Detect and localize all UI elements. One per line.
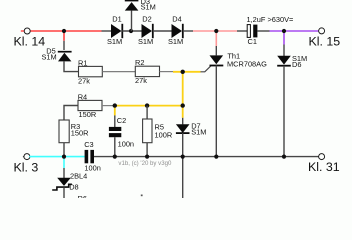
resistor R4 150R [78,92,102,119]
node E gate junction [181,70,185,74]
node K rail junction R5 [145,155,149,159]
wire: red lead to D5 [63,41,65,50]
diode D3 S1M (clipped at top) [125,0,156,12]
wire: D4 cathode lead [183,30,193,32]
wire: D1 anode lead [102,30,112,32]
node D junction at D6 [282,29,286,33]
node H junction D7 [181,103,185,107]
wire: Kl.3 pin stub [23,156,24,158]
wire: D5 anode to R1 [64,61,79,71]
thyristor Th1 MCR708AG [210,51,268,68]
wire: R1-R2 segment [102,71,135,73]
svg-text:2BL4: 2BL4 [70,172,87,181]
wire: Th1 cathode down to ground rail [215,66,217,157]
svg-text:R6: R6 [78,194,87,198]
diode D7 S1M [176,121,207,136]
svg-text:R1: R1 [78,58,87,67]
capacitor C2 100n [109,116,134,149]
svg-text:27k: 27k [78,76,90,85]
svg-text:27k: 27k [135,76,147,85]
node I junction Kl.3 [62,155,66,159]
terminal Kl. 15 [309,28,341,49]
diode D8 2BL4 (zener style) [52,172,87,192]
wire: D8 cathode down off-page [63,187,65,198]
svg-text:150R: 150R [71,128,89,137]
svg-text:S1M: S1M [107,37,122,46]
svg-text:S1M: S1M [42,52,57,61]
wire: D1-D2 segment [122,30,141,32]
svg-text:D1: D1 [112,15,121,24]
terminal Kl. 14 [14,28,46,48]
wire: D8 anode lead [63,168,65,178]
resistor R5 100R [143,119,173,143]
svg-text:Kl. 31: Kl. 31 [308,160,340,174]
svg-text:S1M: S1M [168,37,183,46]
svg-text:Kl. 14: Kl. 14 [14,34,46,48]
svg-text:C2: C2 [117,116,126,125]
node M rail junction Th1 [214,155,218,159]
capacitor C1 1,2uF >630V= [247,15,294,46]
node L rail junction D7 [181,155,185,159]
node F junction C2 [113,103,117,107]
wire: yellow net y=105 [115,106,183,118]
wire: D6 anode lead [283,45,285,57]
wire: cyan net Kl.3 [29,157,84,168]
wire: yellow gate net [173,72,201,106]
svg-text:100n: 100n [118,140,134,149]
wire: C2 bottom lead [114,137,116,156]
diode D4 S1M [168,15,183,47]
wire: pink net to C1 [193,31,237,46]
node B junction at D3 [129,29,133,33]
node A junction top-left [62,29,66,33]
wire: purple net to Kl.15 [270,31,319,45]
wire: C1 right lead [257,30,269,32]
svg-text:C1: C1 [248,37,257,46]
svg-text:R2: R2 [135,58,144,67]
wire: R3 bottom lead [63,143,65,157]
terminal Kl. 31 [308,154,340,174]
wire: D3 anode lead up [131,11,133,31]
wire: R3 top to R4 [64,106,78,121]
node C junction at Th1 anode [214,29,218,33]
svg-text:S1M: S1M [138,37,153,46]
node G junction R5 [145,103,149,107]
resistor R2 27k [135,58,160,85]
svg-text:Kl. 15: Kl. 15 [309,35,341,49]
wire: R5 top lead [146,106,148,119]
wire: Th1 anode lead [215,46,217,55]
diode D5 S1M (cathode up) [42,47,72,62]
node N rail junction D6 [282,155,286,159]
svg-text:1,2uF >630V=: 1,2uF >630V= [247,15,294,24]
wire: R2 right lead [160,71,174,73]
svg-text:D4: D4 [172,15,181,24]
wire: Kl.14 red net top rail [30,31,102,41]
label clipped mark at bottom edge [141,195,143,197]
wire: ground rail to Kl.31 [94,156,319,158]
resistor R3 150R [59,120,88,143]
svg-text:C3: C3 [84,140,93,149]
svg-text:D6: D6 [292,60,301,69]
diode D6 S1M [277,54,307,69]
svg-text:100R: 100R [155,130,173,139]
wire: C2 top lead [114,115,116,127]
wire: gate lead into Th1 [201,66,211,72]
svg-text:D2: D2 [142,15,151,24]
svg-text:S1M: S1M [141,3,156,12]
resistor R1 27k [78,58,102,85]
wire: C1 left lead [237,30,247,32]
svg-text:150R: 150R [79,110,97,119]
wire: D2-D4 segment [153,30,172,32]
wire: D7 cathode through rail down off-page [182,133,184,198]
diode D2 S1M [138,15,153,47]
capacitor C3 100n [84,140,101,173]
svg-text:S1M: S1M [191,128,206,137]
svg-text:R4: R4 [78,92,87,101]
wire: R5 bottom lead [146,143,148,157]
svg-text:Kl. 3: Kl. 3 [14,161,39,175]
svg-text:D8: D8 [69,182,78,191]
terminal Kl. 3 [14,154,39,175]
wire: R4 right lead [102,105,115,107]
diode D1 S1M [107,15,122,47]
wire: D6 cathode down to ground rail [283,66,285,157]
node J rail junction C2 [113,155,117,159]
svg-text:MCR708AG: MCR708AG [227,59,267,68]
svg-text:v1b, (c) '20 by v3g0: v1b, (c) '20 by v3g0 [118,160,172,167]
wire: D7 anode lead [182,118,184,125]
wire: Kl.14 pin stub [21,30,24,32]
